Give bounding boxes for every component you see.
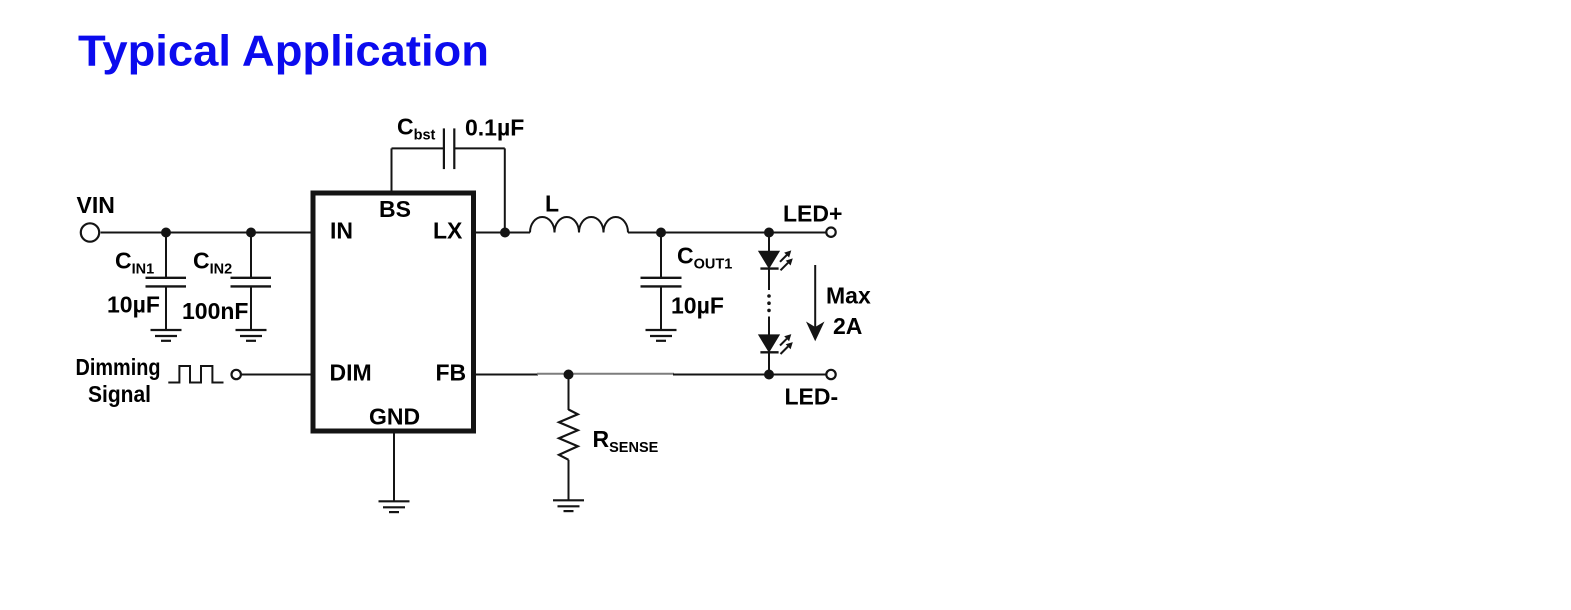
wire LX pin to node	[476, 232, 505, 234]
LED D1	[759, 252, 778, 268]
wire GND stub	[393, 433, 395, 501]
svg-text:VIN: VIN	[77, 192, 115, 218]
inductor L	[530, 217, 628, 233]
svg-text:LX: LX	[433, 218, 463, 244]
wire FB to RSENSE node	[476, 374, 538, 376]
wire dots to D2	[768, 317, 770, 337]
wire CIN1 bottom	[165, 286, 167, 330]
node junction CIN2	[246, 228, 256, 238]
wire D2 to LED- node	[768, 351, 770, 374]
node junction LX	[500, 228, 510, 238]
svg-text:Max: Max	[826, 283, 871, 309]
wire D1 to dots	[768, 268, 770, 291]
LED D2 light arrows	[780, 339, 788, 354]
wire CIN1 top	[165, 233, 167, 278]
svg-text:L: L	[545, 191, 559, 217]
ground RSENSE	[553, 500, 584, 511]
svg-text:Dimming: Dimming	[76, 354, 161, 380]
arrow Max 2A	[814, 265, 816, 329]
terminal LED+	[826, 228, 835, 237]
svg-text:10µF: 10µF	[107, 292, 160, 318]
svg-text:GND: GND	[369, 404, 420, 430]
svg-text:RSENSE: RSENSE	[593, 426, 659, 456]
wire CIN2 top	[250, 233, 252, 278]
wire LED+ node down	[768, 233, 770, 253]
node junction LED-	[764, 370, 774, 380]
svg-text:2A: 2A	[833, 313, 862, 339]
wire COUT1 top	[660, 233, 662, 278]
node junction CIN1	[161, 228, 171, 238]
svg-text:Typical Application: Typical Application	[78, 27, 489, 76]
node junction LED+	[764, 228, 774, 238]
wire COUT1 bottom	[660, 286, 662, 330]
wire Cbst down to LX node	[504, 148, 506, 232]
wire DIM input to DIM pin	[241, 374, 313, 376]
svg-text:COUT1: COUT1	[677, 243, 732, 273]
node junction COUT1	[656, 228, 666, 238]
wire node to inductor	[505, 232, 530, 234]
wire LED- node to terminal	[769, 374, 826, 376]
svg-text:FB: FB	[436, 360, 467, 386]
capacitor C_IN1	[146, 278, 187, 287]
wire Cbst right	[454, 147, 505, 149]
capacitor C_OUT1	[641, 278, 682, 287]
ground GND pin	[379, 501, 410, 512]
capacitor C_IN2	[231, 278, 272, 287]
wire RSENSE node to LED- node	[673, 374, 769, 376]
svg-text:BS: BS	[379, 196, 411, 222]
terminal VIN	[81, 223, 99, 241]
wire BS stub	[391, 148, 393, 191]
wire RSENSE bottom	[568, 460, 570, 500]
svg-text:LED-: LED-	[785, 384, 839, 410]
capacitor C_bst	[444, 128, 454, 169]
terminal LED-	[826, 370, 835, 379]
svg-text:IN: IN	[330, 218, 353, 244]
LED D2	[759, 335, 778, 351]
node ellipsis dots	[767, 294, 771, 312]
svg-text:Cbst: Cbst	[397, 114, 436, 144]
wire gray segment FB net	[537, 373, 674, 375]
wire LED+ node to terminal	[769, 232, 826, 234]
ground CIN2	[236, 330, 267, 341]
LED D1 light arrows	[780, 255, 788, 270]
wire VIN to IN pin	[101, 232, 313, 234]
wire CIN2 bottom	[250, 286, 252, 330]
wire COUT node to LED+ node	[661, 232, 769, 234]
svg-text:100nF: 100nF	[182, 298, 248, 324]
wire inductor to COUT node	[628, 232, 661, 234]
svg-text:DIM: DIM	[330, 360, 372, 386]
ground CIN1	[151, 330, 182, 341]
svg-text:CIN2: CIN2	[193, 248, 232, 278]
svg-text:LED+: LED+	[783, 200, 842, 226]
svg-text:0.1µF: 0.1µF	[465, 115, 524, 141]
node junction RSENSE	[564, 370, 574, 380]
resistor R_SENSE	[559, 410, 578, 460]
wire Cbst left	[392, 147, 444, 149]
svg-text:10µF: 10µF	[671, 293, 724, 319]
dimming pulse waveform	[168, 366, 223, 383]
wire RSENSE top	[568, 375, 570, 411]
terminal DIM input	[232, 370, 241, 379]
svg-text:CIN1: CIN1	[115, 248, 154, 278]
ground COUT1	[646, 330, 677, 341]
svg-text:Signal: Signal	[88, 381, 151, 407]
op-amp U1 (IC body)	[313, 193, 474, 431]
